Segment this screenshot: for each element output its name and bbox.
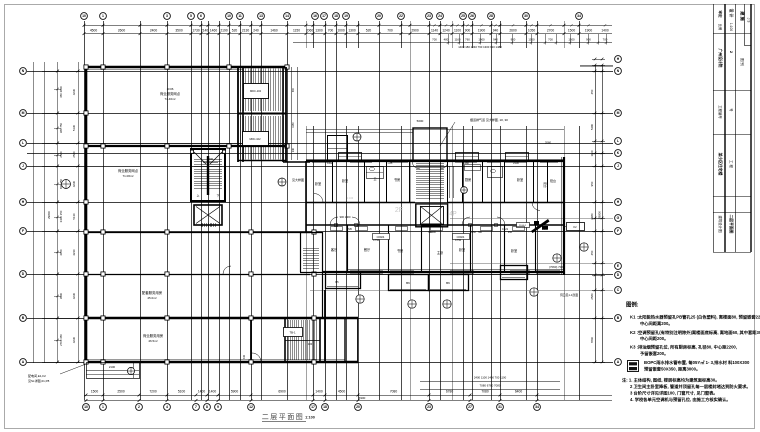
- svg-text:C756: C756: [455, 238, 462, 242]
- drawing title: [262, 413, 315, 422]
- svg-text:9: 9: [217, 405, 219, 409]
- svg-text:4050: 4050: [59, 249, 63, 256]
- svg-text:17: 17: [322, 14, 326, 18]
- svg-text:11: 11: [238, 14, 242, 18]
- svg-text:6780: 6780: [446, 389, 454, 393]
- svg-text:10: 10: [82, 14, 86, 18]
- room labels tower: [315, 177, 556, 255]
- svg-text:4230: 4230: [72, 180, 76, 187]
- svg-text:F: F: [617, 229, 619, 233]
- column grid horizontal lines: [27, 72, 613, 363]
- svg-text:M: M: [617, 111, 620, 115]
- svg-text:阳台: 阳台: [543, 182, 547, 188]
- svg-text:卧室: 卧室: [342, 178, 348, 183]
- svg-text:2580: 2580: [59, 151, 63, 158]
- svg-text:10: 10: [227, 14, 231, 18]
- central stair shaft: [190, 149, 225, 201]
- svg-text:J 3: J 3: [747, 18, 751, 23]
- svg-text:25: 25: [461, 14, 465, 18]
- svg-text:7200: 7200: [149, 389, 157, 393]
- svg-text:5480: 5480: [590, 123, 594, 130]
- grid bubbles bottom: [83, 404, 541, 411]
- corridor door frames: [335, 224, 498, 227]
- column grid vertical lines: [85, 21, 580, 400]
- svg-text:商业服务用房: 商业服务用房: [143, 333, 164, 338]
- svg-text:3300 150: 3300 150: [59, 210, 63, 222]
- title block frame: [713, 4, 751, 253]
- svg-text:1150: 1150: [292, 122, 295, 128]
- balcony left: [326, 273, 361, 289]
- svg-text:卧室: 卧室: [459, 247, 465, 252]
- svg-text:3: 3: [166, 14, 168, 18]
- tower windows top wall: [312, 161, 558, 163]
- svg-text:940: 940: [493, 38, 498, 42]
- svg-text:主卧: 主卧: [437, 250, 444, 255]
- svg-text:1500: 1500: [568, 29, 576, 33]
- svg-text:1240: 1240: [442, 29, 450, 33]
- svg-text:900 1400: 900 1400: [340, 215, 351, 219]
- notes: [622, 377, 751, 404]
- svg-text:二层平面图: 二层平面图: [729, 215, 734, 234]
- svg-text:B5: B5: [335, 280, 339, 284]
- svg-text:3 台阶尺寸详见详图100, 门窗尺寸, 见门窗表。: 3 台阶尺寸详见详图100, 门窗尺寸, 见门窗表。: [630, 390, 718, 397]
- svg-text:6900: 6900: [359, 396, 366, 400]
- svg-text:4: 4: [166, 405, 168, 409]
- svg-text:图 别: 图 别: [740, 58, 745, 66]
- svg-text:二层平面图: 二层平面图: [262, 413, 305, 421]
- svg-text:1400: 1400: [209, 389, 217, 393]
- svg-text:450: 450: [590, 89, 594, 94]
- right dimension strip: [580, 58, 613, 364]
- svg-text:450 3800: 450 3800: [59, 86, 63, 98]
- balcony B6 a: [389, 275, 429, 291]
- svg-text:45.0m²: 45.0m²: [147, 296, 156, 300]
- svg-text:1100: 1100: [454, 29, 461, 33]
- svg-text:16: 16: [313, 14, 317, 18]
- svg-text:900: 900: [465, 29, 471, 33]
- svg-text:900: 900: [511, 38, 516, 42]
- svg-text:74.46m²: 74.46m²: [164, 97, 175, 101]
- bay windows: [338, 153, 529, 161]
- svg-text:14: 14: [285, 14, 289, 18]
- svg-text:4500: 4500: [338, 389, 346, 393]
- svg-text:700: 700: [328, 29, 334, 33]
- svg-text:46.5m²: 46.5m²: [148, 339, 157, 343]
- svg-text:M6: M6: [428, 230, 432, 234]
- svg-text:29800: 29800: [47, 211, 51, 219]
- svg-text:2700: 2700: [547, 29, 555, 33]
- svg-text:950: 950: [508, 231, 513, 234]
- svg-text:700: 700: [387, 29, 393, 33]
- svg-text:1:100: 1:100: [729, 23, 733, 31]
- svg-text:1480: 1480: [327, 161, 333, 165]
- left block columns: [84, 65, 316, 364]
- svg-text:配电间,E1,F2: 配电间,E1,F2: [28, 373, 46, 378]
- svg-text:6400: 6400: [515, 389, 523, 393]
- svg-text:26: 26: [470, 14, 474, 18]
- svg-text:1900: 1900: [585, 29, 593, 33]
- svg-text:240: 240: [292, 147, 295, 152]
- svg-text:2130: 2130: [513, 161, 519, 165]
- svg-text:8: 8: [206, 405, 208, 409]
- svg-text:2130: 2130: [242, 29, 250, 33]
- svg-text:2580: 2580: [590, 293, 594, 300]
- svg-text:L: L: [22, 141, 24, 145]
- svg-text:520: 520: [366, 29, 372, 33]
- svg-text:工 程: 工 程: [729, 160, 734, 168]
- svg-text:1500: 1500: [568, 38, 575, 42]
- svg-text:23: 23: [427, 405, 431, 409]
- svg-text:客厅: 客厅: [331, 247, 338, 252]
- svg-text:4230: 4230: [72, 88, 76, 95]
- svg-text:工程编号: 工程编号: [718, 105, 723, 119]
- bathroom fixtures: [366, 167, 503, 179]
- balcony B6 b: [429, 275, 469, 291]
- svg-text:K3 :排油烟预留孔位, 所有厨房标高, 孔径80, 中心: K3 :排油烟预留孔位, 所有厨房标高, 孔径80, 中心距2200,: [630, 344, 737, 351]
- svg-text:BOPC雨水排水管布置, 每05Y㎡ 1- 3,排水材 料1: BOPC雨水排水管布置, 每05Y㎡ 1- 3,排水材 料100X300: [644, 359, 750, 366]
- upper stair shaft hatch: [238, 67, 286, 162]
- svg-text:400: 400: [243, 354, 246, 359]
- svg-text:1900: 1900: [478, 29, 486, 33]
- svg-text:7080: 7080: [481, 389, 489, 393]
- svg-text:2060: 2060: [306, 29, 314, 33]
- corridor tags: [430, 212, 529, 235]
- svg-text:下: 下: [217, 194, 220, 198]
- svg-text:商业服务网点: 商业服务网点: [118, 168, 139, 173]
- svg-text:7860: 7860: [590, 336, 594, 343]
- tower junction walls: [300, 232, 323, 318]
- svg-text:K2: K2: [573, 225, 577, 229]
- tower internal walls lower row: [348, 225, 536, 272]
- title block text: [718, 9, 751, 234]
- svg-text:MDC-102: MDC-102: [250, 89, 262, 93]
- tower elevator: [416, 204, 448, 227]
- kitchen counters: [450, 165, 481, 199]
- central elevator: [194, 205, 222, 227]
- legend K1: [630, 314, 760, 328]
- bottom stair shaft: [285, 318, 320, 362]
- detail marks: [62, 133, 589, 375]
- svg-text:1:100: 1:100: [347, 197, 354, 200]
- svg-text:5000: 5000: [417, 119, 424, 123]
- svg-text:7080 6780 7080: 7080 6780 7080: [480, 384, 501, 388]
- svg-text:(7060) 700: (7060) 700: [549, 265, 563, 269]
- svg-text:建 施: 建 施: [739, 10, 746, 21]
- svg-text:700: 700: [432, 38, 437, 42]
- svg-text:G: G: [617, 216, 620, 220]
- svg-text:520: 520: [232, 29, 238, 33]
- svg-text:B6: B6: [406, 281, 410, 285]
- svg-text:1400: 1400: [198, 389, 206, 393]
- window tags on corridor wall: [373, 234, 470, 240]
- bottom-left annotation: [28, 364, 86, 383]
- svg-text:中心间距离200。: 中心间距离200。: [640, 320, 673, 327]
- svg-text:1F06: 1F06: [167, 87, 174, 91]
- svg-text:2600: 2600: [509, 29, 517, 33]
- svg-text:3900: 3900: [59, 292, 63, 299]
- svg-text:5900: 5900: [231, 389, 239, 393]
- svg-text:4230: 4230: [72, 336, 76, 343]
- svg-text:1900: 1900: [478, 38, 485, 42]
- top dimension strip: [83, 24, 612, 49]
- in-plan small dimensions: [308, 161, 549, 346]
- svg-text:3150: 3150: [470, 231, 476, 234]
- svg-text:900: 900: [292, 87, 295, 92]
- svg-text:1:100: 1:100: [305, 416, 315, 420]
- svg-text:1140: 1140: [431, 29, 438, 33]
- svg-text:12: 12: [249, 405, 253, 409]
- tower internal walls upper row: [333, 161, 548, 203]
- svg-text:4230: 4230: [72, 292, 76, 299]
- grid bubbles top: [81, 13, 583, 20]
- left commercial block outer walls: [86, 67, 358, 362]
- svg-text:某小区住宅楼: 某小区住宅楼: [718, 152, 723, 176]
- svg-text:注: 1. 主体结构, 图纸, 楼层标高均为建筑面标高30: 注: 1. 主体结构, 图纸, 楼层标高均为建筑面标高30。: [622, 377, 720, 384]
- svg-text:1300: 1300: [348, 29, 356, 33]
- leader annotations: [292, 117, 578, 297]
- svg-text:2190: 2190: [220, 29, 228, 33]
- svg-text:34: 34: [535, 405, 539, 409]
- svg-text:1150: 1150: [293, 29, 300, 33]
- svg-text:18: 18: [323, 405, 327, 409]
- svg-text:28: 28: [489, 14, 493, 18]
- svg-text:19: 19: [344, 14, 348, 18]
- svg-text:2700 450: 2700 450: [59, 334, 63, 346]
- svg-text:书房: 书房: [397, 248, 403, 253]
- svg-text:380 750: 380 750: [59, 123, 63, 134]
- balcony right: [501, 266, 528, 280]
- grid bubbles right: [615, 56, 622, 366]
- svg-text:1800: 1800: [207, 157, 214, 161]
- svg-text:34: 34: [577, 14, 581, 18]
- svg-text:厨房: 厨房: [465, 177, 471, 182]
- svg-text:23: 23: [427, 14, 431, 18]
- svg-text:2400 1100 1400 700 1100: 2400 1100 1400 700 1100: [474, 376, 507, 380]
- svg-text:700: 700: [548, 38, 553, 42]
- svg-text:烟道排气道 见大样图, 1#, 3#: 烟道排气道 见大样图, 1#, 3#: [470, 117, 508, 122]
- svg-text:阳台: 阳台: [550, 178, 556, 183]
- svg-text:予留嵌套200。: 予留嵌套200。: [640, 350, 668, 357]
- svg-text:2580: 2580: [72, 151, 76, 158]
- svg-text:1480: 1480: [463, 161, 469, 165]
- svg-text:5130: 5130: [72, 124, 76, 131]
- svg-text:7: 7: [195, 405, 197, 409]
- svg-text:1460: 1460: [270, 29, 278, 33]
- svg-text:1: 1: [102, 14, 104, 18]
- svg-text:2: 2: [138, 405, 140, 409]
- svg-text:18: 18: [334, 14, 338, 18]
- svg-text:4. 学校各单元空调机与预留孔位, 由施工方核实确认。: 4. 学校各单元空调机与预留孔位, 由施工方核实确认。: [630, 396, 731, 403]
- shaft side dim column: [292, 67, 298, 160]
- svg-text:上: 上: [197, 194, 200, 198]
- right bay window mark: [564, 223, 585, 231]
- bottom dimension strip: [84, 376, 612, 402]
- svg-text:比例: 比例: [718, 24, 723, 31]
- svg-text:5100: 5100: [178, 389, 186, 393]
- svg-text:C05: C05: [388, 161, 393, 165]
- svg-text:商业服务网点: 商业服务网点: [160, 91, 181, 96]
- bottom stair label box: [284, 328, 303, 337]
- svg-text:1050: 1050: [528, 29, 536, 33]
- svg-text:27: 27: [468, 405, 472, 409]
- left block internal walls: [86, 67, 358, 362]
- svg-text:22: 22: [399, 14, 403, 18]
- svg-text:5130: 5130: [72, 213, 76, 220]
- svg-text:2400: 2400: [150, 29, 158, 33]
- svg-text:卧室: 卧室: [315, 181, 321, 186]
- svg-text:31: 31: [498, 405, 502, 409]
- svg-text:7080: 7080: [390, 389, 398, 393]
- svg-text:2F: 2F: [395, 207, 403, 214]
- svg-text:2130: 2130: [542, 227, 548, 231]
- svg-text:预留嵌套50X350, 距离3000。: 预留嵌套50X350, 距离3000。: [644, 366, 700, 373]
- svg-text:2060: 2060: [545, 141, 552, 145]
- svg-text:餐厅: 餐厅: [364, 247, 371, 252]
- svg-text:2600: 2600: [118, 29, 126, 33]
- svg-text:J: J: [22, 164, 24, 168]
- tower corridor walls: [306, 203, 564, 226]
- svg-text:24: 24: [438, 14, 442, 18]
- door arcs: [223, 161, 540, 362]
- svg-text:760: 760: [465, 38, 470, 42]
- svg-text:100: 100: [308, 342, 313, 346]
- svg-text:K1 :太阳能热水器预留孔PB管孔25 (白色塑料), 离: K1 :太阳能热水器预留孔PB管孔25 (白色塑料), 离楼面80, 预留嵌套2…: [630, 314, 760, 321]
- svg-text:1460: 1460: [210, 29, 218, 33]
- svg-text:C121: C121: [502, 227, 509, 231]
- svg-text:MDC-102: MDC-102: [249, 137, 261, 141]
- svg-text:4P: 4P: [449, 212, 456, 218]
- svg-text:M6: M6: [478, 230, 482, 234]
- svg-text:图例:: 图例:: [626, 301, 639, 309]
- legend title: [626, 301, 639, 309]
- legend A symbol: [628, 359, 750, 373]
- svg-text:1160: 1160: [454, 38, 460, 42]
- svg-text:配套服务用房: 配套服务用房: [142, 290, 163, 295]
- svg-text:480: 480: [444, 38, 449, 42]
- svg-text:见SL详图,01,P8: 见SL详图,01,P8: [28, 378, 50, 383]
- svg-text:1100: 1100: [590, 150, 594, 156]
- grid bubbles left: [20, 68, 27, 366]
- svg-text:TB-1: TB-1: [289, 331, 296, 335]
- tower outer walls: [306, 157, 564, 275]
- svg-text:1730: 1730: [192, 29, 200, 33]
- svg-text:950: 950: [590, 181, 594, 186]
- left block entrance step: [86, 362, 140, 379]
- svg-text:240: 240: [253, 29, 259, 33]
- svg-text:10: 10: [84, 405, 88, 409]
- svg-text:1400: 1400: [601, 29, 609, 33]
- svg-text:2140: 2140: [201, 29, 209, 33]
- svg-text:71.06m²: 71.06m²: [122, 174, 133, 178]
- svg-text:4230: 4230: [72, 249, 76, 256]
- svg-text:13: 13: [259, 14, 263, 18]
- svg-text:洞口见1-1剖面: 洞口见1-1剖面: [560, 293, 578, 297]
- svg-text:3500: 3500: [175, 29, 183, 33]
- tower stair shaft: [413, 128, 447, 200]
- svg-text:书房: 书房: [394, 177, 400, 182]
- svg-text:2900: 2900: [411, 29, 419, 33]
- svg-text:30: 30: [524, 14, 528, 18]
- upper stair label boxes: [243, 84, 269, 146]
- svg-text:中心间距200。: 中心间距200。: [640, 335, 668, 342]
- svg-text:K2 :空调预留孔(有特别注明除外)离楼面底标高, 离地面: K2 :空调预留孔(有特别注明除外)离楼面底标高, 离地面60, 其中套距300…: [630, 329, 760, 336]
- svg-text:M: M: [22, 111, 25, 115]
- svg-text:1000: 1000: [337, 29, 345, 33]
- svg-text:17: 17: [311, 405, 315, 409]
- entry door dark marks: [531, 141, 552, 234]
- svg-text:4500: 4500: [90, 29, 98, 33]
- svg-text:20: 20: [356, 405, 360, 409]
- svg-text:L: L: [617, 139, 619, 143]
- svg-text:2500: 2500: [117, 389, 125, 393]
- svg-text:卧室: 卧室: [511, 248, 517, 253]
- svg-text:6900: 6900: [278, 389, 286, 393]
- svg-text:卫: 卫: [373, 177, 376, 181]
- svg-text:450: 450: [590, 250, 594, 255]
- svg-text:卧室: 卧室: [517, 177, 523, 182]
- left dimension strip: [34, 62, 81, 363]
- svg-text:1400 180 1240 760 1300 920 148: 1400 180 1240 760 1300 920 1480: [458, 45, 502, 49]
- tower windows bottom wall: [350, 271, 560, 274]
- svg-text:C756: C756: [373, 238, 380, 242]
- svg-text:1500: 1500: [91, 389, 99, 393]
- svg-text:700: 700: [603, 38, 608, 42]
- svg-text:广州设计院: 广州设计院: [718, 49, 723, 68]
- tower roof line: [306, 130, 564, 133]
- room labels left block: [118, 87, 218, 343]
- legend K2: [630, 329, 760, 342]
- svg-text:B6: B6: [446, 281, 450, 285]
- svg-text:M5: M5: [348, 227, 352, 231]
- svg-text:6: 6: [200, 14, 202, 18]
- svg-text:5: 5: [190, 14, 192, 18]
- svg-text:1: 1: [102, 405, 104, 409]
- svg-text:1400: 1400: [315, 389, 323, 393]
- svg-text:J: J: [617, 164, 619, 168]
- svg-text:1300: 1300: [315, 29, 323, 33]
- vent shaft top left: [327, 136, 348, 162]
- svg-text:2100: 2100: [109, 365, 116, 369]
- svg-text:940: 940: [493, 29, 499, 33]
- svg-text:设 计: 设 计: [729, 9, 734, 18]
- wardrobes lower rooms: [331, 227, 525, 231]
- svg-text:20: 20: [377, 14, 381, 18]
- svg-text:F: F: [22, 229, 24, 233]
- svg-text:2 卫生间主卧室降板, 管道井顶留孔每一层楼封堵达到防火: 2 卫生间主卧室降板, 管道井顶留孔每一层楼封堵达到防火要求。: [630, 383, 751, 390]
- legend K3: [630, 344, 737, 358]
- svg-text:审定: 审定: [718, 10, 723, 18]
- svg-text:6980: 6980: [590, 213, 594, 220]
- svg-text:见大样图: 见大样图: [292, 177, 304, 182]
- svg-text:建筑设计图: 建筑设计图: [718, 216, 723, 234]
- svg-text:29800: 29800: [598, 211, 602, 219]
